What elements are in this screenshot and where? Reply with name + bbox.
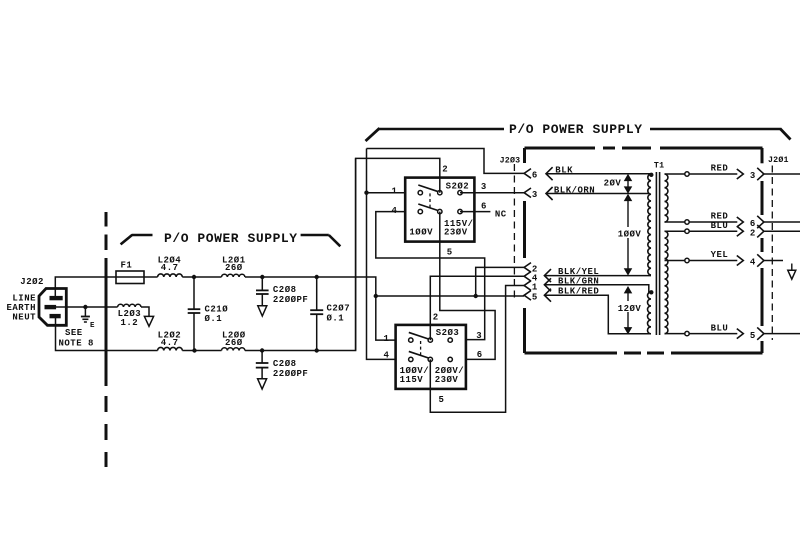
S203 mechanical link dashes [420,341,422,357]
svg-text:5: 5 [532,292,538,302]
outer P/O POWER SUPPLY bracket right slant [780,129,791,140]
svg-text:NEUT: NEUT [12,312,36,322]
ground symbol E [84,307,86,316]
wire BLK/RED with arrow [544,295,651,334]
inductor L202 coil [158,347,183,350]
module border right edge [761,148,764,353]
svg-text:3: 3 [481,182,487,192]
S203 pin 2 contact [428,338,432,342]
svg-text:J2Ø3: J2Ø3 [500,155,521,165]
svg-text:J2Ø1: J2Ø1 [768,155,789,165]
wire NEUT from J202 [56,317,158,351]
junction dot net A left [374,294,378,298]
inner P/O POWER SUPPLY bracket left slant [121,235,133,245]
svg-text:YEL: YEL [711,250,729,260]
wire J203 pin1 to S203 pin5 [430,286,524,413]
fuse F1 element wire [116,276,144,278]
module border bottom edge [525,352,763,355]
S202 pin 6 contact [458,209,462,213]
inductor L200 coil [222,348,245,351]
capacitor C208 bottom [261,351,263,364]
P/O boundary dashed line [105,212,108,467]
svg-text:1: 1 [384,334,390,344]
wire S202 pin4 to S203 pin3 [376,212,485,340]
svg-text:BLK: BLK [555,166,573,176]
svg-text:1: 1 [532,283,538,293]
outer P/O POWER SUPPLY bracket right dash line [650,128,781,131]
T1 secondary lower coil [665,231,668,333]
wire S202 pin1 to J203-6 net [367,149,396,360]
svg-text:C2Ø7: C2Ø7 [327,303,351,313]
switch S203 box [396,325,466,389]
J203 pin2 symbol [524,263,531,273]
J202 pin LINE bar [50,296,63,300]
svg-text:26Ø: 26Ø [225,338,243,348]
svg-text:23ØV: 23ØV [435,375,459,385]
svg-text:115V: 115V [400,375,424,385]
outer P/O POWER SUPPLY bracket left slant [366,128,380,141]
svg-text:4.7: 4.7 [161,263,179,273]
wire RED to J201 pin3 [689,173,737,175]
inner P/O POWER SUPPLY bracket left dash [132,234,153,237]
J203 pin3 symbol [524,188,531,198]
T1 secondary upper coil [665,174,668,222]
svg-text:BLK/GRN: BLK/GRN [558,277,599,287]
wire S202 pin3 to J203 pin3 [460,192,524,194]
svg-text:6: 6 [532,170,538,180]
S202 pin 1 contact [418,191,422,195]
svg-text:1ØØV: 1ØØV [618,230,642,240]
svg-text:1.2: 1.2 [121,318,139,328]
junction dot primary top [649,173,653,177]
svg-text:3: 3 [750,171,756,181]
inductor L203 coil [118,304,141,307]
capacitor C207 [316,277,318,310]
svg-text:1: 1 [392,186,398,196]
S202 pin 2 contact [438,191,442,195]
inner P/O POWER SUPPLY bracket right slant [329,235,341,246]
outer P/O POWER SUPPLY bracket left dash line [379,128,504,131]
wire BLK/GRN with arrow [544,285,651,292]
fuse F1 body [116,271,144,284]
J202 pin EARTH bar [45,305,57,309]
J203 pin5 symbol [524,291,531,301]
inner P/O POWER SUPPLY bracket right dash [301,234,329,237]
svg-text:2: 2 [442,164,448,174]
chassis arrow after L203 [144,316,153,326]
wire S202 pin1 [367,192,406,194]
svg-text:22ØØPF: 22ØØPF [273,369,308,379]
junction dot primary lower top [649,290,653,294]
T1 secondary lead pin5 [665,333,686,335]
svg-text:4.7: 4.7 [161,338,179,348]
svg-text:S2Ø3: S2Ø3 [436,328,460,338]
wire YEL to J201 pin4 [689,260,737,262]
svg-text:RED: RED [711,164,729,174]
svg-text:S2Ø2: S2Ø2 [446,182,470,192]
junction dot S202 pin1 [364,191,368,195]
T1 secondary lead pin3 [665,173,686,175]
svg-text:5: 5 [439,395,445,405]
connector J202 outline [39,289,66,326]
svg-text:J2Ø2: J2Ø2 [20,277,44,287]
svg-text:2ØV: 2ØV [604,179,622,189]
module border top edge [525,147,763,150]
T1 secondary lead pin4 [665,260,686,262]
junction dot net A right [474,294,478,298]
wire EARTH from J202 [56,306,118,308]
svg-text:F1: F1 [121,260,133,270]
junction dot top C210 [192,275,196,279]
wire net A to S203 pin1 [376,296,396,340]
svg-text:2: 2 [433,312,439,322]
S203 pin 5 contact [428,357,432,361]
100V span arrow [627,197,629,228]
svg-text:SEE: SEE [65,328,83,338]
svg-text:22ØØPF: 22ØØPF [273,295,308,305]
S202 pin 5 contact [438,209,442,213]
junction dot bottom C210 [192,348,196,352]
T1 secondary lead pin2 [665,230,686,232]
S202 mechanical link dashes [429,193,431,209]
chassis arrow at J201 pin4 [791,264,793,271]
T1 secondary lead pin6 [665,221,686,223]
J203 dashed connector line [513,164,515,301]
S203 bottom arm [409,351,429,358]
S202 top arm [418,185,438,192]
svg-text:5: 5 [750,331,756,341]
S202 pin 4 contact [418,209,422,213]
inductor L201 coil [222,274,245,277]
switch S202 box [405,178,474,242]
capacitor C208 top [261,277,263,290]
wire bottom rail L202-L200 [182,350,221,352]
wire BLU to J201 pin2 [689,230,737,232]
T1 core lines [655,172,657,335]
svg-text:BLK/RED: BLK/RED [558,287,599,297]
svg-text:6: 6 [477,350,483,360]
S203 top arm [409,332,429,339]
svg-text:6: 6 [481,201,487,211]
wire net top to J203 pin6 [367,149,525,174]
wire top rail C207 to corner [317,277,376,296]
svg-text:E: E [90,322,95,330]
wire BLU to J201 pin5 [689,333,737,335]
wire J203 pin2 leg [476,267,524,296]
J203 pin6 symbol [524,169,531,179]
junction dot top C208 [260,275,264,279]
junction dot bottom C207 [315,348,319,352]
svg-text:2: 2 [750,228,756,238]
S202 pin 3 contact [458,191,462,195]
svg-text:5: 5 [447,248,453,258]
svg-text:BLK/YEL: BLK/YEL [558,267,599,277]
wire S202 pin6 NC stub [460,211,490,213]
wire F1 to L204 [144,276,158,278]
S202 bottom arm [418,204,438,211]
svg-text:NOTE 8: NOTE 8 [59,339,94,349]
wire BLK/YEL with arrow [544,275,651,277]
svg-text:P/O POWER SUPPLY: P/O POWER SUPPLY [164,231,298,246]
svg-text:P/O POWER SUPPLY: P/O POWER SUPPLY [509,122,643,137]
wire BLK/ORN with arrow [546,193,649,195]
20V span arrow [627,177,629,192]
wire net A horizontal [376,295,524,297]
wire top rail to S203 pin2 and J203 pin4 [430,276,524,340]
svg-text:3: 3 [532,190,538,200]
wire RED to J201 pin6 [689,221,737,223]
module border left edge [523,148,526,353]
120V span arrow [627,289,629,301]
wire top rail L204-L201 [182,276,221,278]
wire BLK with arrow [546,173,651,175]
S203 pin 3 contact [448,338,452,342]
S203 pin 1 contact [409,338,413,342]
J202 pin NEUT bar [50,314,61,318]
svg-text:BLU: BLU [711,323,729,333]
svg-text:23ØV: 23ØV [444,227,468,237]
svg-text:C2Ø8: C2Ø8 [273,359,297,369]
T1 primary lower coil [648,292,651,334]
chassis arrow C208 top [258,306,267,316]
junction dot top C207 [315,275,319,279]
svg-text:BLK/ORN: BLK/ORN [554,185,595,195]
J203 pin1 symbol [524,281,531,291]
chassis arrow C208 bottom [258,379,267,389]
wire LINE up from J202 [55,277,116,297]
wire bottom rail L200 to corner [245,158,356,350]
svg-text:12ØV: 12ØV [618,304,642,314]
svg-text:BLU: BLU [711,221,729,231]
junction dot bottom C208 [260,348,264,352]
svg-text:Ø.1: Ø.1 [205,314,223,324]
wire S202 pin2 to bottom rail [356,158,440,350]
S203 pin 6 contact [448,357,452,361]
inductor L204 coil [158,274,183,277]
svg-text:NC: NC [495,209,507,219]
junction dot earth [83,305,87,309]
svg-text:26Ø: 26Ø [225,263,243,273]
svg-text:4: 4 [750,258,756,268]
wire S202 pin5 to S203 pin6 [440,212,495,360]
T1 primary upper coil [648,174,651,275]
capacitor C210 [193,277,195,309]
J203 pin4 symbol [524,272,531,282]
svg-text:1ØØV: 1ØØV [409,227,433,237]
S203 pin 4 contact [409,357,413,361]
svg-text:C2Ø8: C2Ø8 [273,285,297,295]
wire L203 to chassis arrow [141,307,149,316]
svg-text:Ø.1: Ø.1 [327,313,345,323]
J201 dashed connector line [771,166,773,341]
svg-text:T1: T1 [654,162,664,171]
wire top rail L201-C207 [245,276,317,278]
